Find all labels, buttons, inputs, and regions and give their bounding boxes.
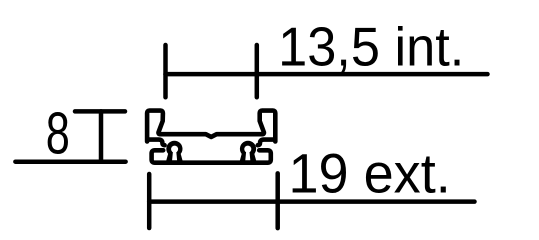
left screw boss feet (166, 154, 182, 161)
extension tick right 19 ext. (275, 173, 280, 228)
dimension 8 bottom reference line (15, 159, 125, 164)
dimension line 13,5 int. (internal width) (166, 72, 488, 77)
right screw boss ring (240, 141, 256, 157)
right screw boss hole (244, 146, 251, 153)
right screw boss feet (240, 154, 256, 161)
dimension 8 top cap (75, 109, 125, 114)
extension tick left 13,5 int. (163, 45, 168, 97)
right clip hook (258, 140, 274, 146)
dimension line 19 ext. (external width) (149, 199, 474, 204)
right screw boss slit (245, 151, 250, 160)
dimension 8 (profile height) vertical line (99, 111, 104, 161)
svg-text:19 ext.: 19 ext. (289, 142, 451, 205)
svg-text:13,5 int.: 13,5 int. (278, 17, 464, 77)
extension tick right 13,5 int. (255, 45, 260, 97)
left screw boss ring (166, 141, 182, 157)
profile outline: side walls, top retaining lips, channel floor with centre V-notch (147, 111, 275, 142)
left screw boss slit (172, 151, 177, 160)
left clip hook (149, 140, 165, 146)
extension tick left 19 ext. (147, 174, 152, 228)
svg-text:8: 8 (46, 100, 70, 166)
lower shelves, lower side walls and bottom plate (152, 150, 271, 162)
left screw boss hole (171, 146, 178, 153)
